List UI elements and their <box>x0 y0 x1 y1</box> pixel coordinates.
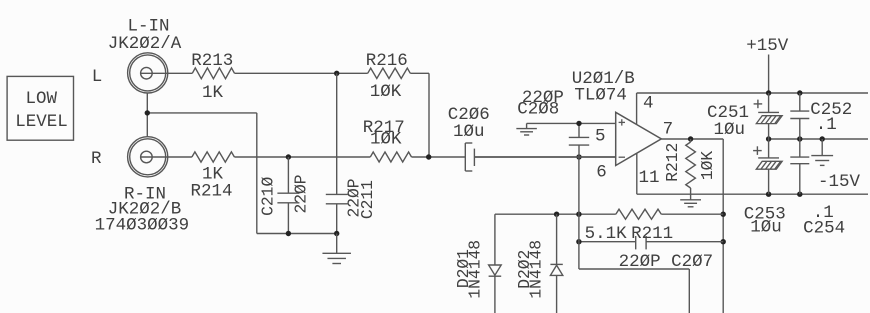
svg-text:R214: R214 <box>191 181 233 201</box>
svg-text:22ØP: 22ØP <box>292 174 311 213</box>
svg-text:5.1K: 5.1K <box>585 224 628 244</box>
svg-text:R211: R211 <box>631 224 673 244</box>
svg-text:C2Ø8: C2Ø8 <box>517 100 559 120</box>
svg-text:+15V: +15V <box>746 36 789 56</box>
svg-text:1Øu: 1Øu <box>750 218 782 238</box>
svg-text:TLØ74: TLØ74 <box>574 86 627 106</box>
svg-text:1Øu: 1Øu <box>714 120 746 140</box>
svg-text:JK2Ø2/A: JK2Ø2/A <box>108 34 182 54</box>
svg-text:4: 4 <box>643 94 654 114</box>
svg-text:R: R <box>91 149 102 169</box>
svg-text:11: 11 <box>639 168 660 188</box>
svg-text:R213: R213 <box>191 51 233 71</box>
svg-text:1K: 1K <box>202 83 224 103</box>
svg-text:6: 6 <box>596 163 607 183</box>
svg-text:1N4148: 1N4148 <box>527 240 546 299</box>
svg-text:22ØP C2Ø7: 22ØP C2Ø7 <box>619 252 714 272</box>
svg-text:R212: R212 <box>663 143 682 182</box>
svg-text:174Ø3ØØ39: 174Ø3ØØ39 <box>95 216 190 236</box>
svg-text:.1: .1 <box>816 115 837 135</box>
svg-text:-15V: -15V <box>818 172 861 192</box>
svg-text:5: 5 <box>595 126 606 146</box>
svg-text:C211: C211 <box>358 180 377 219</box>
svg-text:LOW: LOW <box>26 89 58 109</box>
svg-text:1Øu: 1Øu <box>453 122 485 142</box>
svg-text:LEVEL: LEVEL <box>15 112 68 132</box>
svg-text:1ØK: 1ØK <box>370 130 402 150</box>
svg-text:L: L <box>92 67 103 87</box>
svg-text:1ØK: 1ØK <box>698 151 717 181</box>
svg-text:R216: R216 <box>366 51 408 71</box>
svg-text:7: 7 <box>663 120 674 140</box>
svg-text:C21Ø: C21Ø <box>258 177 277 216</box>
svg-text:1N4148: 1N4148 <box>466 240 485 299</box>
svg-text:C254: C254 <box>803 218 845 238</box>
svg-text:1ØK: 1ØK <box>370 82 402 102</box>
